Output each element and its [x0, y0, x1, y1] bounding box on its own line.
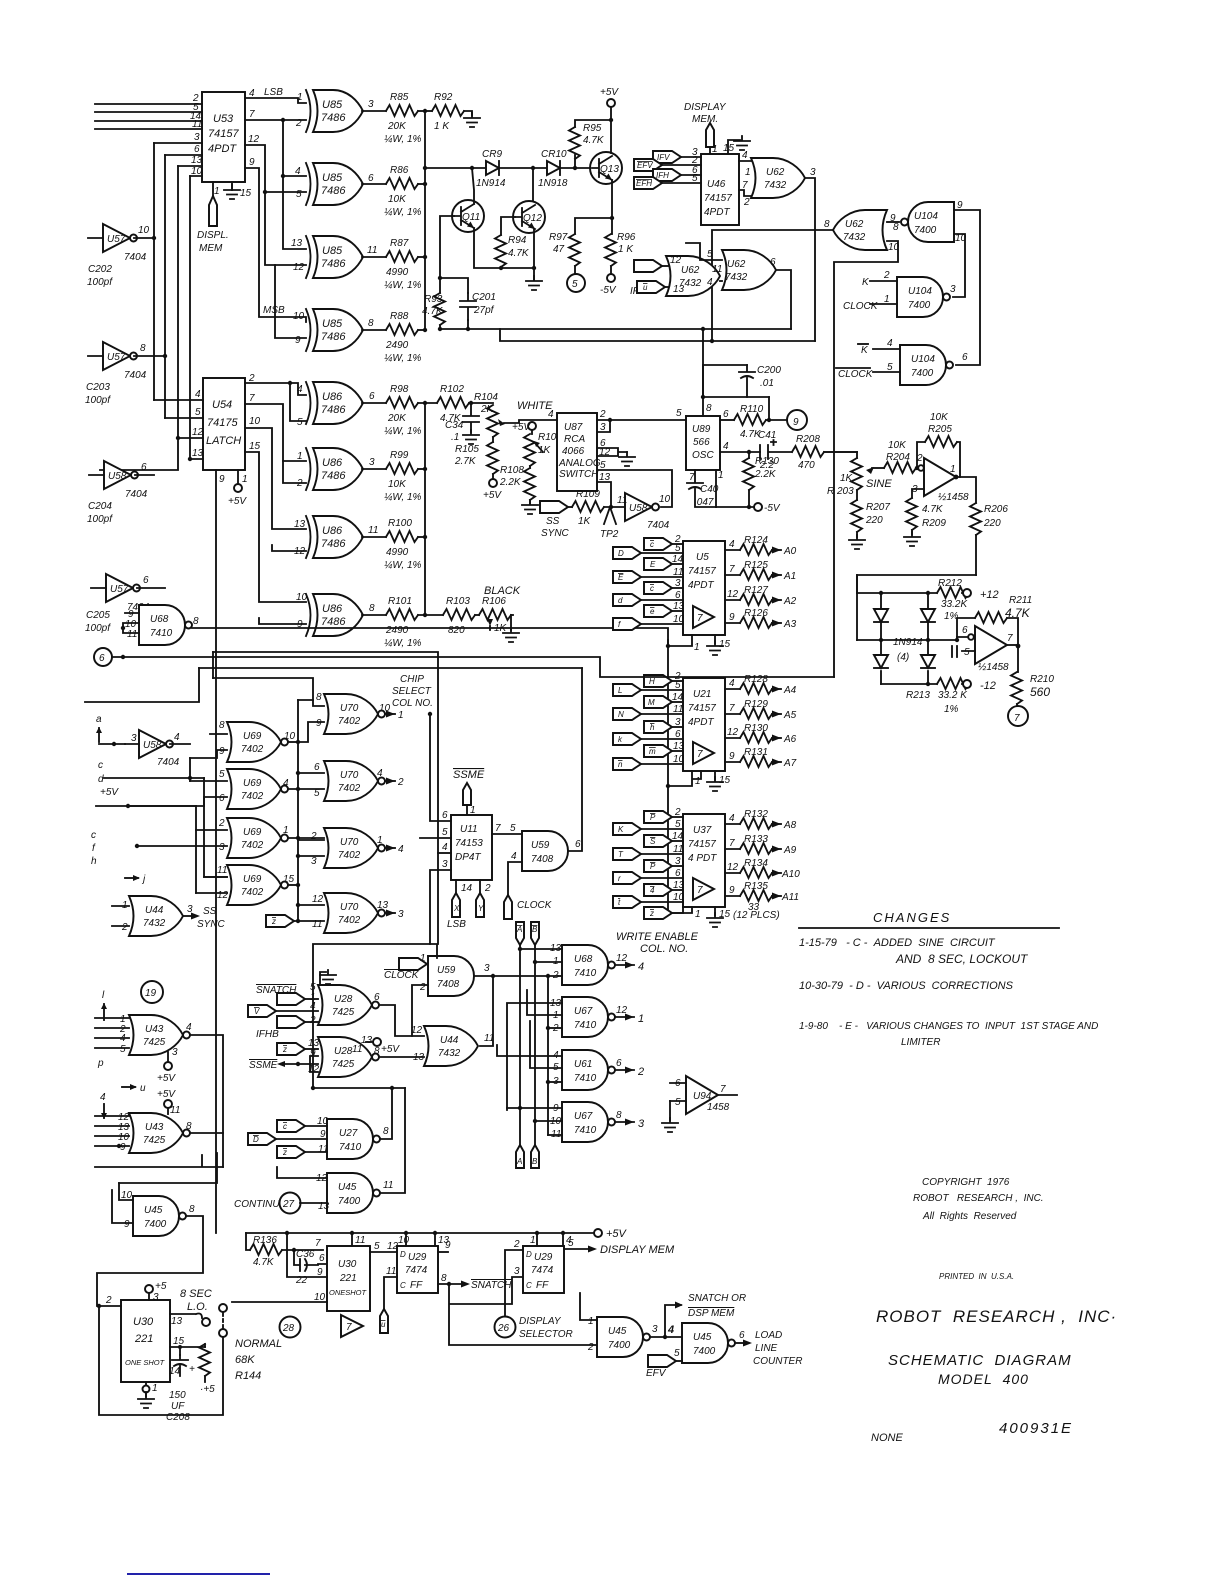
svg-text:1: 1 — [694, 642, 700, 653]
svg-text:A5: A5 — [783, 710, 797, 721]
wire U45c in12 long — [277, 1167, 327, 1178]
svg-text:1: 1 — [745, 167, 751, 178]
svg-text:U58: U58 — [108, 471, 127, 482]
resistor R136 4.7K — [246, 1233, 250, 1250]
svg-text:R100: R100 — [388, 518, 412, 529]
svg-text:11: 11 — [170, 1105, 180, 1116]
svg-text:4: 4 — [100, 1092, 106, 1103]
svg-text:R130: R130 — [744, 723, 768, 734]
resistor R93 4.7K — [434, 293, 445, 325]
svg-text:U68: U68 — [150, 614, 169, 625]
svg-text:12: 12 — [192, 427, 204, 438]
flag EFH — [634, 177, 662, 189]
svg-text:7: 7 — [346, 1322, 352, 1333]
svg-text:1: 1 — [718, 470, 724, 481]
flag DISPL.MEM below U53 pin 1 — [212, 182, 214, 198]
svg-text:7432: 7432 — [843, 232, 866, 243]
wire U11 pin4 — [438, 852, 451, 854]
circle 28 — [280, 1317, 301, 1338]
svg-text:1458: 1458 — [707, 1102, 730, 1113]
svg-text:U62: U62 — [727, 259, 746, 270]
nor U70a 7402 — [324, 694, 385, 734]
svg-text:14: 14 — [461, 883, 473, 894]
nor U70b 7402 — [324, 761, 385, 801]
wire x405 down to U45c out — [381, 1088, 405, 1193]
svg-text:R109: R109 — [576, 489, 600, 500]
svg-text:4: 4 — [742, 150, 748, 161]
svg-text:4.7K: 4.7K — [922, 504, 944, 515]
wire +5V rail y1233 — [246, 1232, 594, 1234]
svg-text:1K: 1K — [538, 445, 552, 456]
svg-text:7402: 7402 — [338, 716, 361, 727]
nor4 U43b 7425 — [129, 1113, 190, 1153]
svg-text:1N914: 1N914 — [893, 637, 923, 648]
svg-text:7404: 7404 — [124, 370, 147, 381]
svg-text:U104: U104 — [911, 354, 935, 365]
svg-text:10K: 10K — [388, 479, 407, 490]
nor4 U28b 7425 — [318, 1037, 379, 1077]
wire U54 pin10 to U86c — [245, 428, 306, 529]
svg-text:C200: C200 — [757, 365, 781, 376]
svg-text:B: B — [532, 925, 538, 934]
wire U86 output bus x425 — [424, 403, 426, 615]
svg-text:47: 47 — [553, 244, 565, 255]
wire U86a in5 — [290, 383, 306, 421]
or gate U62a 7432 — [751, 158, 805, 198]
potentiometer R107 1K — [528, 422, 536, 430]
svg-text:½1458: ½1458 — [938, 492, 969, 503]
svg-text:m: m — [649, 747, 656, 756]
wire U29b top pins — [537, 1233, 563, 1246]
wire U89 pin4 row — [720, 451, 760, 453]
svg-text:U85: U85 — [322, 99, 343, 111]
svg-text:566: 566 — [693, 437, 710, 448]
svg-text:SNATCH OR: SNATCH OR — [688, 1293, 746, 1304]
svg-text:74157: 74157 — [208, 128, 239, 140]
svg-text:U57: U57 — [107, 234, 126, 245]
svg-text:6: 6 — [374, 992, 380, 1003]
svg-text:7486: 7486 — [321, 404, 346, 416]
svg-text:H: H — [649, 677, 655, 686]
svg-text:100pf: 100pf — [87, 514, 113, 525]
svg-text:FF: FF — [536, 1280, 549, 1291]
nand U45a 7400 — [133, 1196, 186, 1236]
svg-text:C202: C202 — [88, 264, 112, 275]
inverter U58c 7404 — [139, 730, 173, 758]
svg-text:10: 10 — [314, 1292, 326, 1303]
wire opamp A out — [956, 477, 976, 503]
svg-text:4.7K: 4.7K — [583, 135, 605, 146]
flag CLOCK up — [504, 895, 512, 919]
svg-text:C36: C36 — [296, 1249, 315, 1260]
svg-text:15: 15 — [240, 188, 252, 199]
svg-text:R97: R97 — [549, 232, 568, 243]
svg-text:6: 6 — [675, 590, 681, 601]
nor4 U43a 7425 — [129, 1015, 190, 1055]
svg-text:4: 4 — [548, 409, 554, 420]
svg-text:1: 1 — [297, 92, 303, 103]
wire y1088 — [313, 1087, 405, 1089]
svg-text:11: 11 — [617, 495, 627, 506]
diode bridge column 1 — [880, 593, 882, 684]
svg-text:R130: R130 — [755, 456, 779, 467]
opamp A 1458 — [924, 458, 956, 496]
svg-text:K: K — [618, 825, 624, 834]
svg-text:h: h — [650, 723, 655, 732]
IC U54 74175 LATCH — [203, 378, 245, 470]
svg-text:6: 6 — [962, 352, 968, 363]
svg-text:6: 6 — [314, 762, 320, 773]
wire verticals left mid — [190, 758, 227, 893]
svg-text:U70: U70 — [340, 770, 359, 781]
xor gate U86b 7486 — [306, 448, 363, 490]
svg-text:8: 8 — [219, 720, 225, 731]
svg-text:7402: 7402 — [241, 840, 264, 851]
svg-text:1N918: 1N918 — [538, 178, 568, 189]
svg-text:1: 1 — [638, 1013, 644, 1025]
svg-text:7400: 7400 — [144, 1219, 167, 1230]
svg-text:U85: U85 — [322, 245, 343, 257]
svg-text:221: 221 — [339, 1273, 357, 1284]
wire U61 in5 — [530, 1021, 562, 1068]
svg-text:R127: R127 — [744, 585, 768, 596]
svg-text:A7: A7 — [783, 758, 797, 769]
svg-text:12: 12 — [294, 546, 306, 557]
svg-text:2: 2 — [296, 478, 303, 489]
svg-text:2.2K: 2.2K — [499, 477, 522, 488]
svg-text:9: 9 — [445, 1240, 451, 1251]
svg-text:10K: 10K — [388, 194, 407, 205]
svg-text:10: 10 — [284, 731, 296, 742]
svg-text:2.2K: 2.2K — [754, 469, 777, 480]
svg-text:11: 11 — [192, 119, 202, 130]
wire U62b in10 path — [834, 241, 898, 677]
or U44b 7432 — [424, 1026, 478, 1066]
svg-text:U57: U57 — [107, 352, 126, 363]
svg-text:3: 3 — [398, 909, 404, 920]
svg-text:AND 8 SEC, LOCKOUT: AND 8 SEC, LOCKOUT — [895, 952, 1029, 966]
svg-text:5: 5 — [675, 819, 681, 830]
svg-text:u: u — [140, 1083, 146, 1094]
wire U70a in8 — [213, 678, 324, 706]
svg-text:R95: R95 — [583, 123, 602, 134]
wire U54 pin2 to U86a — [245, 383, 306, 395]
svg-text:6: 6 — [319, 1253, 325, 1264]
arrow u — [122, 1086, 135, 1088]
svg-text:9: 9 — [295, 335, 301, 346]
svg-text:5: 5 — [219, 769, 225, 780]
svg-text:3: 3 — [442, 859, 448, 870]
svg-text:12: 12 — [312, 894, 324, 905]
svg-text:A9: A9 — [783, 845, 797, 856]
svg-text:R135: R135 — [744, 881, 768, 892]
wire U68b in1 from B — [535, 961, 562, 963]
svg-text:28: 28 — [282, 1323, 295, 1334]
svg-text:12: 12 — [248, 134, 260, 145]
wire A vertical — [519, 945, 521, 1150]
svg-text:DP4T: DP4T — [455, 852, 481, 863]
svg-text:R105: R105 — [455, 444, 479, 455]
svg-text:U61: U61 — [574, 1059, 592, 1070]
svg-text:5: 5 — [568, 1238, 574, 1249]
svg-text:U43: U43 — [145, 1024, 164, 1035]
svg-text:11: 11 — [368, 525, 378, 536]
resistor R105 2.7K — [492, 437, 494, 442]
wire U29a pin8 SNATCH — [438, 1283, 462, 1285]
flag IFHB to U28a in2 — [277, 1016, 305, 1028]
svg-text:1N914: 1N914 — [476, 178, 506, 189]
wire Q11 emitter — [474, 228, 534, 268]
nand3 U27 7410 — [327, 1119, 380, 1159]
svg-text:SSME: SSME — [453, 769, 485, 781]
svg-text:R93: R93 — [424, 294, 443, 305]
svg-text:1: 1 — [950, 464, 956, 475]
svg-text:15: 15 — [719, 909, 731, 920]
transistor Q13 — [590, 152, 622, 184]
svg-text:u: u — [381, 1320, 386, 1329]
svg-text:1: 1 — [377, 835, 383, 846]
IC U29b 7474 FF — [523, 1246, 564, 1293]
resistor R144 — [180, 1346, 205, 1348]
svg-text:13: 13 — [673, 284, 685, 295]
svg-text:WRITE ENABLE: WRITE ENABLE — [616, 931, 699, 943]
svg-text:4.7K: 4.7K — [422, 306, 444, 317]
svg-text:U94: U94 — [693, 1091, 712, 1102]
wire U45a out down — [97, 1216, 203, 1306]
svg-text:6: 6 — [770, 257, 776, 268]
svg-text:NORMAL: NORMAL — [235, 1338, 282, 1350]
svg-text:U67: U67 — [574, 1111, 593, 1122]
wire opamp B in6 — [957, 637, 968, 640]
svg-text:2: 2 — [513, 1239, 520, 1250]
resistor R209 4.7K — [906, 498, 917, 530]
svg-text:4: 4 — [186, 1022, 192, 1033]
svg-text:U45: U45 — [338, 1182, 357, 1193]
svg-text:5: 5 — [692, 173, 698, 184]
svg-text:8: 8 — [369, 603, 375, 614]
xor gate U85d 7486 — [306, 309, 363, 351]
wire U53 pin4 LSB to U85a — [245, 98, 306, 103]
wire U61 in4 — [497, 1045, 562, 1056]
svg-text:3: 3 — [675, 717, 681, 728]
svg-text:CR9: CR9 — [482, 149, 502, 160]
svg-text:CR10: CR10 — [541, 149, 567, 160]
wire U30b pin5 to U29a — [370, 1251, 397, 1253]
svg-text:5: 5 — [572, 279, 578, 290]
svg-text:11: 11 — [318, 1144, 328, 1155]
svg-text:+12: +12 — [980, 589, 999, 601]
svg-text:74153: 74153 — [455, 838, 483, 849]
svg-text:11: 11 — [673, 844, 683, 855]
svg-text:7486: 7486 — [321, 538, 346, 550]
flag B top — [531, 922, 539, 945]
svg-text:U53: U53 — [213, 113, 234, 125]
svg-text:SELECTOR: SELECTOR — [519, 1329, 573, 1340]
ground U46 pin15 — [728, 140, 740, 154]
svg-text:R96: R96 — [617, 232, 636, 243]
wire U53 pin9 MSB to U85d in10 — [245, 168, 306, 322]
svg-text:SYNC: SYNC — [197, 919, 226, 930]
svg-text:R136: R136 — [253, 1235, 277, 1246]
svg-text:11: 11 — [355, 1235, 365, 1246]
ground R92 — [464, 113, 480, 127]
svg-text:2: 2 — [743, 197, 750, 208]
svg-text:2: 2 — [883, 270, 890, 281]
svg-text:d: d — [618, 596, 623, 605]
wire y1167 y1183 — [95, 1153, 223, 1183]
svg-text:U104: U104 — [914, 211, 938, 222]
svg-text:8: 8 — [441, 1273, 447, 1284]
svg-text:R106: R106 — [482, 596, 506, 607]
opamp B 1458 — [975, 626, 1007, 664]
svg-text:221: 221 — [134, 1333, 153, 1345]
U5 pin15 gnd — [714, 635, 716, 643]
IC U87 4066 analog switch — [557, 413, 597, 491]
nand U45e 7400 — [682, 1323, 735, 1363]
svg-text:7425: 7425 — [143, 1037, 166, 1048]
svg-text:4: 4 — [295, 166, 301, 177]
svg-text:a: a — [96, 714, 102, 725]
svg-text:10: 10 — [138, 225, 150, 236]
svg-text:+: + — [189, 1364, 195, 1375]
resistor R208 470 — [792, 446, 824, 457]
wire U30a pin13 hook — [170, 1314, 202, 1319]
resistor R103 820 — [443, 609, 475, 620]
resistor R92 1K — [432, 105, 464, 116]
svg-text:R99: R99 — [390, 450, 409, 461]
svg-text:R213: R213 — [906, 690, 930, 701]
wire y652 chip select loop — [213, 652, 438, 944]
or gate U62c 7432 — [666, 256, 720, 296]
wire U11 pin3 — [430, 870, 451, 944]
U37 pin15 gnd — [714, 907, 716, 915]
svg-text:TP2: TP2 — [600, 529, 619, 540]
svg-text:2: 2 — [637, 1066, 644, 1078]
svg-text:UF: UF — [171, 1401, 185, 1412]
svg-text:13: 13 — [361, 1035, 373, 1046]
IC U30a 221 ONE SHOT — [121, 1300, 170, 1382]
wire U44b out up to y976 — [480, 976, 493, 1046]
svg-text:U30: U30 — [133, 1316, 154, 1328]
svg-text:3: 3 — [131, 733, 137, 744]
svg-text:12: 12 — [217, 890, 229, 901]
svg-text:2: 2 — [419, 982, 426, 993]
svg-text:5: 5 — [296, 189, 302, 200]
svg-text:R92: R92 — [434, 92, 453, 103]
wire Q11 collector — [472, 168, 474, 204]
svg-text:4: 4 — [283, 778, 289, 789]
svg-text:R212: R212 — [938, 578, 962, 589]
svg-text:4: 4 — [650, 886, 655, 895]
flag IFV — [653, 151, 681, 163]
U37 pin1 wire to select — [668, 907, 692, 913]
svg-text:9: 9 — [793, 417, 799, 428]
flag to U28a in1 — [277, 993, 305, 1005]
svg-text:8: 8 — [824, 219, 830, 230]
svg-text:R134: R134 — [744, 858, 768, 869]
svg-text:U57: U57 — [110, 584, 129, 595]
svg-text:4: 4 — [638, 961, 644, 973]
svg-text:U62: U62 — [766, 167, 785, 178]
svg-text:4.7K: 4.7K — [508, 248, 530, 259]
wire U67a in2 — [548, 1027, 562, 1029]
svg-text:7: 7 — [689, 472, 695, 483]
svg-text:COPYRIGHT 1976: COPYRIGHT 1976 — [922, 1177, 1010, 1188]
U5 pin1 wire to select — [668, 635, 692, 646]
svg-text:4: 4 — [887, 338, 893, 349]
xor gate U86a 7486 — [306, 382, 363, 424]
wire output bus x425 — [424, 111, 426, 330]
svg-text:R206: R206 — [984, 504, 1008, 515]
svg-text:15: 15 — [283, 874, 295, 885]
wire R93/C201 bottom to long wire — [440, 320, 468, 329]
svg-text:U46: U46 — [707, 179, 726, 190]
svg-text:LSB: LSB — [264, 87, 283, 98]
svg-text:7400: 7400 — [911, 368, 934, 379]
svg-text:8: 8 — [368, 318, 374, 329]
svg-text:A1: A1 — [783, 571, 796, 582]
svg-text:COUNTER: COUNTER — [753, 1356, 802, 1367]
svg-text:220: 220 — [865, 515, 883, 526]
svg-text:9: 9 — [249, 157, 255, 168]
svg-text:7: 7 — [742, 180, 748, 191]
svg-text:SSME: SSME — [249, 1060, 278, 1071]
wire U30a pin2 — [99, 1305, 121, 1307]
wire junction to U85b — [281, 118, 285, 122]
svg-text:SELECT: SELECT — [392, 686, 432, 697]
svg-text:7: 7 — [729, 703, 735, 714]
wire to U85c in12 — [263, 190, 267, 194]
svg-text:100pf: 100pf — [87, 277, 113, 288]
+5V circle U28b pin11/13 — [373, 1038, 381, 1046]
nor U69d 7402 — [227, 865, 288, 905]
svg-text:3: 3 — [600, 422, 606, 433]
svg-text:5: 5 — [675, 680, 681, 691]
wire U104a in9 from right — [954, 210, 980, 365]
svg-text:6: 6 — [723, 409, 729, 420]
svg-text:U58: U58 — [629, 503, 648, 514]
svg-text:L: L — [618, 686, 622, 695]
wire U54 pin15 to U86d — [245, 452, 306, 602]
resistor R96 1K — [605, 234, 616, 266]
IC U53 74157 4PDT — [202, 92, 245, 182]
U21 outputs A4-A7 — [725, 674, 797, 769]
svg-text:8: 8 — [383, 1126, 389, 1137]
IC U46 74157 4PDT — [701, 154, 739, 225]
resistor R211 4.7K — [975, 612, 1007, 623]
wire U86b in2 — [283, 461, 306, 483]
svg-text:6: 6 — [575, 839, 581, 850]
svg-text:4.7K: 4.7K — [253, 1257, 275, 1268]
svg-text:SYNC: SYNC — [541, 528, 570, 539]
svg-text:7402: 7402 — [338, 915, 361, 926]
svg-text:6: 6 — [369, 391, 375, 402]
svg-text:LSB: LSB — [447, 919, 466, 930]
svg-text:SCHEMATIC DIAGRAM: SCHEMATIC DIAGRAM — [888, 1352, 1072, 1369]
flag A top — [516, 922, 524, 945]
svg-text:10: 10 — [673, 754, 685, 765]
svg-text:5: 5 — [120, 1044, 126, 1055]
svg-text:5: 5 — [374, 1241, 380, 1252]
svg-text:5: 5 — [675, 1097, 681, 1108]
svg-text:2: 2 — [105, 1295, 112, 1306]
select vertical wire — [667, 640, 669, 913]
svg-text:8: 8 — [316, 692, 322, 703]
svg-text:C203: C203 — [86, 382, 110, 393]
svg-text:74157: 74157 — [704, 193, 732, 204]
svg-text:A: A — [516, 1157, 522, 1166]
svg-text:7486: 7486 — [321, 470, 346, 482]
